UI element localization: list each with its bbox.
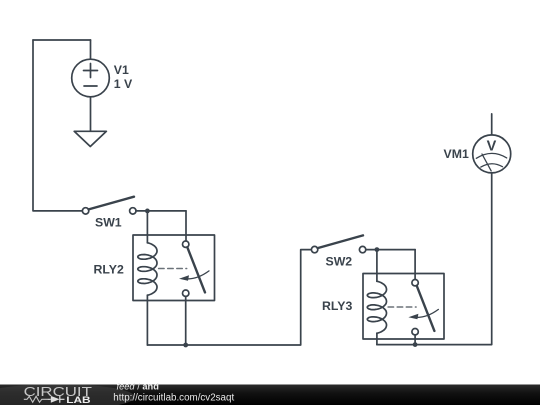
relay RLY3 contact bottom circle — [412, 329, 418, 335]
svg-text:V1: V1 — [114, 63, 129, 77]
logo resistor zigzag — [24, 396, 48, 402]
junction dot RLY2 bottom node — [183, 343, 188, 348]
relay RLY3 contact top circle — [412, 280, 418, 286]
voltage source V1 — [72, 59, 110, 97]
wire V1 bottom lead — [90, 97, 92, 132]
V1 plus sign — [84, 64, 98, 78]
wire SW1 to RLY2 tops — [136, 210, 186, 212]
voltmeter VM1 top stub wire — [491, 114, 493, 135]
relay RLY3 coil — [367, 281, 386, 333]
V1 minus sign — [84, 85, 97, 87]
switch SW2 blade — [318, 235, 363, 248]
voltmeter VM1 scale arcs — [476, 153, 506, 167]
svg-text:1 V: 1 V — [114, 77, 133, 91]
ground — [74, 131, 106, 146]
svg-text:RLY3: RLY3 — [322, 299, 352, 313]
relay RLY2 contact top circle — [183, 241, 189, 247]
svg-text:RLY2: RLY2 — [94, 262, 124, 276]
junction dot RLY3 bottom node — [413, 342, 418, 347]
switch SW1 blade — [89, 197, 134, 210]
svg-text:V: V — [487, 138, 497, 154]
wire RLY2 contact top lead — [185, 211, 187, 241]
wire left rail down to SW1 — [33, 40, 82, 211]
wire bus RLY2 bottoms to SW2 — [147, 250, 311, 345]
relay RLY3 dashed actuation link — [388, 306, 416, 308]
relay RLY3 coil bottom lead — [376, 333, 378, 344]
wire RLY3 contact top lead — [414, 250, 416, 280]
logo diode symbol — [51, 396, 60, 403]
junction dot SW1 output node — [145, 209, 150, 214]
svg-text:LAB: LAB — [66, 395, 91, 405]
svg-text:feed / and: feed / and — [117, 382, 160, 392]
switch SW1 left terminal — [82, 208, 88, 214]
relay RLY2 blade — [187, 247, 205, 292]
wire V1 top lead — [90, 40, 92, 59]
svg-text:http://circuitlab.com/cv2saqt: http://circuitlab.com/cv2saqt — [113, 392, 234, 403]
wire top horizontal V1 to left rail — [33, 39, 91, 41]
relay RLY2 coil top lead — [146, 211, 148, 243]
voltmeter VM1 needle — [482, 154, 491, 171]
switch SW1 right terminal — [130, 208, 136, 214]
relay RLY3 box — [363, 274, 444, 340]
relay RLY2 dashed actuation link — [159, 268, 187, 270]
relay RLY3 blade — [417, 286, 435, 331]
svg-text:SW2: SW2 — [326, 254, 353, 268]
junction dot SW2 output node — [375, 247, 380, 252]
wire bus RLY3 bottoms to VM1 — [377, 173, 492, 345]
relay RLY3 actuation arrowhead — [408, 314, 418, 320]
voltmeter VM1 body — [473, 135, 511, 173]
relay RLY2 contact bottom lead — [185, 296, 187, 345]
relay RLY3 actuation arrow arc — [413, 309, 439, 317]
logo glow — [0, 384, 135, 405]
relay RLY2 coil — [138, 243, 157, 295]
relay RLY3 coil top lead — [376, 250, 378, 282]
relay RLY2 contact bottom circle — [183, 290, 189, 296]
relay RLY3 contact bottom lead — [414, 335, 416, 345]
svg-text:VM1: VM1 — [444, 147, 469, 161]
svg-text:SW1: SW1 — [95, 216, 122, 230]
switch SW2 right terminal — [359, 246, 365, 252]
relay RLY2 coil bottom lead — [146, 295, 148, 345]
relay RLY2 box — [133, 235, 215, 301]
relay RLY2 actuation arrow arc — [184, 271, 210, 279]
switch SW2 left terminal — [311, 246, 317, 252]
relay RLY2 actuation arrowhead — [179, 275, 189, 281]
wire SW2 to RLY3 tops — [366, 249, 415, 251]
